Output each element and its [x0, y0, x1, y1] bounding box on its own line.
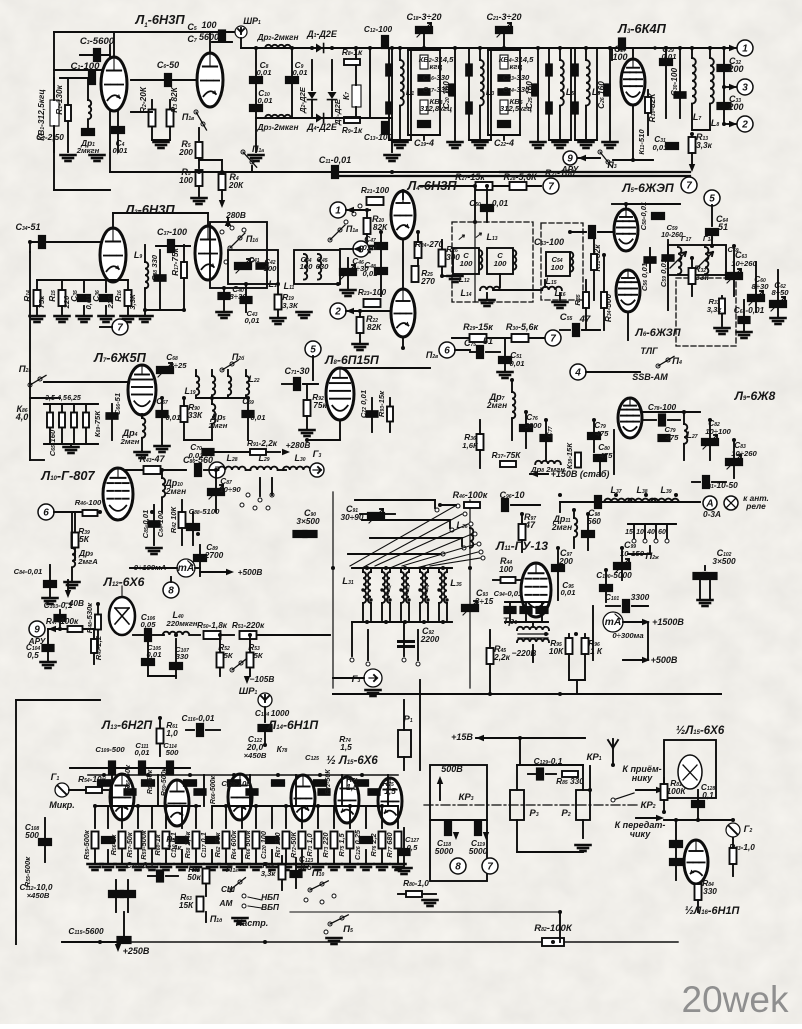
- svg-text:C23-330: C23-330: [503, 73, 530, 82]
- svg-text:100: 100: [460, 259, 474, 268]
- svg-text:R47-100к: R47-100к: [46, 616, 79, 626]
- svg-text:500: 500: [166, 748, 180, 757]
- svg-text:2,4к: 2,4к: [166, 843, 183, 852]
- svg-text:1 К: 1 К: [590, 646, 603, 656]
- svg-text:R60-1к: R60-1к: [153, 833, 162, 855]
- svg-text:R91-2,2к: R91-2,2к: [247, 438, 278, 448]
- svg-text:R30-5,6к: R30-5,6к: [506, 322, 539, 332]
- svg-text:0,05: 0,05: [141, 620, 157, 629]
- svg-text:C117-0,1: C117-0,1: [126, 860, 155, 870]
- svg-text:C115-5600: C115-5600: [68, 926, 104, 936]
- svg-text:C59 0,01: C59 0,01: [659, 259, 668, 287]
- svg-text:20wek: 20wek: [682, 979, 789, 1020]
- svg-text:5600: 5600: [199, 32, 219, 42]
- svg-text:R46-100: R46-100: [75, 498, 102, 507]
- svg-text:C61-0,01: C61-0,01: [734, 305, 765, 315]
- svg-text:R72-50К: R72-50К: [289, 831, 298, 858]
- svg-text:R66 500к: R66 500к: [243, 829, 252, 859]
- svg-text:100: 100: [179, 175, 193, 185]
- svg-text:R72-50К: R72-50К: [325, 769, 332, 795]
- svg-text:0,01: 0,01: [662, 52, 677, 61]
- svg-text:1,0: 1,0: [166, 728, 178, 738]
- svg-text:Л10-Г-807: Л10-Г-807: [40, 468, 95, 483]
- svg-text:0,01: 0,01: [510, 359, 525, 368]
- svg-text:R1-130к: R1-130к: [54, 84, 64, 114]
- svg-text:75к: 75к: [37, 295, 46, 309]
- svg-text:2700: 2700: [204, 550, 224, 560]
- svg-text:R93-15к: R93-15к: [377, 390, 386, 417]
- svg-text:−105В: −105В: [250, 674, 275, 684]
- svg-text:50к: 50к: [187, 872, 201, 882]
- svg-text:Л9-6Ж8: Л9-6Ж8: [734, 389, 776, 403]
- svg-text:10К: 10К: [549, 646, 564, 656]
- svg-text:4,5: 4,5: [56, 395, 67, 402]
- svg-text:475: 475: [599, 451, 614, 460]
- svg-text:R56 1к: R56 1к: [109, 833, 118, 855]
- svg-text:C21-3÷20: C21-3÷20: [486, 12, 521, 22]
- svg-text:R73 220: R73 220: [321, 831, 330, 857]
- svg-text:Л4-6Н3П: Л4-6Н3П: [406, 178, 457, 193]
- svg-text:R21-100: R21-100: [361, 185, 390, 195]
- svg-text:0,01: 0,01: [492, 198, 509, 208]
- svg-text:C109-500: C109-500: [95, 745, 125, 754]
- svg-text:R21-100: R21-100: [545, 168, 575, 178]
- svg-text:3÷15: 3÷15: [475, 596, 494, 606]
- svg-text:Д1-Д2Е: Д1-Д2Е: [306, 29, 338, 39]
- svg-text:C37-100: C37-100: [157, 227, 187, 237]
- svg-text:R29-15к: R29-15к: [463, 322, 493, 332]
- svg-text:15К: 15К: [179, 900, 194, 910]
- svg-text:10÷260: 10÷260: [731, 259, 757, 268]
- svg-text:C96-10: C96-10: [499, 490, 524, 500]
- svg-text:5: 5: [709, 194, 715, 205]
- svg-text:×450В: ×450В: [27, 891, 50, 900]
- svg-text:1: 1: [742, 44, 748, 55]
- svg-text:2мгн: 2мгн: [486, 400, 507, 410]
- svg-text:C53-100: C53-100: [534, 237, 564, 247]
- svg-text:R66-500к: R66-500к: [210, 775, 217, 804]
- svg-text:6: 6: [444, 346, 450, 357]
- svg-text:R37-75К: R37-75К: [492, 450, 522, 460]
- svg-text:Д4-Д2Е: Д4-Д2Е: [306, 122, 338, 132]
- svg-text:1: 1: [335, 206, 341, 217]
- svg-text:5600: 5600: [524, 421, 542, 430]
- svg-text:Л6-6ЖЗП: Л6-6ЖЗП: [634, 327, 681, 339]
- svg-text:500: 500: [25, 830, 39, 840]
- svg-text:C120-100: C120-100: [221, 779, 251, 788]
- svg-text:+1500В: +1500В: [652, 617, 684, 627]
- svg-text:7: 7: [487, 862, 493, 873]
- svg-text:R28-5,6К: R28-5,6К: [503, 172, 538, 182]
- svg-text:C34-51: C34-51: [15, 222, 40, 232]
- svg-text:100: 100: [551, 263, 565, 272]
- svg-text:3300: 3300: [631, 592, 650, 602]
- svg-text:C16-330: C16-330: [423, 73, 450, 82]
- svg-text:C3-5600: C3-5600: [80, 36, 115, 47]
- svg-text:R3 82К: R3 82К: [169, 86, 179, 112]
- svg-text:C100-5000: C100-5000: [596, 570, 632, 580]
- svg-text:2мгн: 2мгн: [551, 522, 572, 532]
- svg-text:8: 8: [168, 586, 174, 597]
- svg-text:5К: 5К: [79, 534, 90, 544]
- svg-text:R24-270: R24-270: [415, 239, 444, 249]
- svg-text:8: 8: [455, 862, 461, 873]
- svg-text:1,5: 1,5: [340, 742, 352, 752]
- svg-text:10-260: 10-260: [661, 232, 683, 239]
- svg-text:Микр.: Микр.: [49, 800, 75, 810]
- svg-text:8÷25: 8÷25: [169, 361, 187, 370]
- svg-text:К11-510: К11-510: [637, 129, 646, 155]
- svg-text:C94-0,01: C94-0,01: [494, 589, 523, 598]
- svg-text:C56 0,01: C56 0,01: [640, 263, 649, 291]
- svg-text:0,5: 0,5: [27, 650, 39, 660]
- svg-text:100К: 100К: [667, 786, 687, 796]
- svg-text:C71-30: C71-30: [284, 366, 309, 376]
- svg-text:R67 220: R67 220: [273, 831, 282, 857]
- svg-text:7: 7: [686, 181, 692, 192]
- svg-text:100: 100: [494, 259, 508, 268]
- svg-text:К38-15К: К38-15К: [565, 442, 574, 469]
- svg-text:+150В (стаб): +150В (стаб): [551, 469, 610, 479]
- svg-text:ТЛГ: ТЛГ: [640, 346, 658, 356]
- svg-text:0÷300ма: 0÷300ма: [612, 631, 644, 640]
- svg-text:Л13-6Н2П: Л13-6Н2П: [101, 718, 152, 732]
- svg-text:А: А: [705, 499, 713, 510]
- svg-text:3,3К: 3,3К: [282, 301, 299, 310]
- svg-text:ВБП: ВБП: [261, 902, 280, 912]
- svg-text:0,01: 0,01: [653, 143, 668, 152]
- svg-text:9: 9: [567, 154, 573, 165]
- svg-text:кгц: кгц: [510, 62, 523, 71]
- svg-text:7: 7: [548, 182, 554, 193]
- svg-text:0,01: 0,01: [245, 316, 260, 325]
- svg-text:C126 0,25: C126 0,25: [353, 829, 362, 860]
- svg-text:C84-100: C84-100: [156, 510, 165, 537]
- svg-text:1,0: 1,0: [346, 782, 358, 792]
- svg-text:C12-100: C12-100: [364, 24, 393, 34]
- svg-text:3,3К: 3,3К: [128, 293, 137, 310]
- svg-text:9: 9: [34, 625, 40, 636]
- svg-text:100: 100: [201, 20, 216, 30]
- svg-text:2: 2: [741, 120, 748, 131]
- svg-text:R42 10К: R42 10К: [169, 505, 178, 533]
- svg-text:R2-20К: R2-20К: [138, 86, 148, 113]
- svg-text:R43-47: R43-47: [139, 454, 165, 464]
- svg-text:C2-2,50: C2-2,50: [36, 132, 64, 142]
- svg-text:2мкгн: 2мкгн: [76, 146, 100, 155]
- svg-text:Л2-6Н3П: Л2-6Н3П: [124, 202, 175, 217]
- svg-text:+500В: +500В: [238, 567, 263, 577]
- svg-text:Л7-6Ж5П: Л7-6Ж5П: [93, 350, 147, 365]
- svg-text:C65-160: C65-160: [48, 429, 57, 456]
- svg-text:100: 100: [264, 264, 278, 273]
- svg-text:100: 100: [300, 262, 314, 271]
- svg-text:R80-1,0: R80-1,0: [403, 878, 429, 888]
- svg-text:60: 60: [658, 529, 666, 536]
- svg-text:R76 2,2: R76 2,2: [369, 832, 378, 856]
- svg-text:↗: ↗: [457, 232, 465, 242]
- svg-text:½Л15-6Х6: ½Л15-6Х6: [676, 725, 725, 737]
- svg-text:0,01: 0,01: [113, 146, 128, 155]
- svg-text:R51-220к: R51-220к: [232, 620, 265, 630]
- svg-text:200: 200: [727, 102, 743, 112]
- svg-text:0,01: 0,01: [293, 68, 308, 77]
- svg-text:100: 100: [499, 564, 513, 574]
- svg-text:R77 680: R77 680: [385, 831, 394, 857]
- svg-text:R8-1к: R8-1к: [342, 47, 363, 57]
- svg-text:R27-15к: R27-15к: [455, 172, 485, 182]
- svg-text:↗: ↗: [474, 230, 482, 240]
- svg-text:C117 0,1: C117 0,1: [199, 832, 208, 858]
- svg-text:R82-100К: R82-100К: [534, 923, 573, 934]
- svg-text:C103-0,1: C103-0,1: [44, 600, 73, 610]
- svg-text:Л1-6Н3П: Л1-6Н3П: [134, 12, 185, 29]
- svg-text:2мгн: 2мгн: [208, 421, 228, 430]
- svg-text:7: 7: [117, 323, 123, 334]
- svg-text:5000: 5000: [435, 846, 454, 856]
- svg-text:Л8-6П15П: Л8-6П15П: [324, 353, 379, 367]
- svg-text:8÷50: 8÷50: [771, 288, 789, 297]
- svg-text:500В: 500В: [441, 764, 463, 774]
- svg-text:10: 10: [636, 529, 644, 536]
- svg-text:0,01: 0,01: [251, 413, 266, 422]
- svg-text:+250В: +250В: [123, 946, 150, 956]
- svg-text:0,01: 0,01: [561, 588, 576, 597]
- svg-text:C120 100: C120 100: [259, 830, 268, 859]
- svg-text:R50-1,8к: R50-1,8к: [197, 620, 228, 630]
- svg-text:R64 600к: R64 600к: [229, 829, 238, 859]
- svg-text:+15В: +15В: [451, 732, 473, 742]
- svg-text:2: 2: [334, 307, 341, 318]
- svg-text:1000: 1000: [271, 708, 290, 718]
- svg-text:100: 100: [612, 52, 627, 62]
- svg-text:R58 2,4к: R58 2,4к: [183, 830, 192, 858]
- svg-text:330: 330: [703, 886, 717, 896]
- svg-text:5000: 5000: [469, 846, 488, 856]
- svg-text:2200: 2200: [420, 634, 440, 644]
- svg-text:Л12-6Х6: Л12-6Х6: [103, 575, 145, 589]
- svg-text:15: 15: [625, 529, 633, 536]
- svg-text:2мгА: 2мгА: [77, 557, 98, 566]
- svg-text:5: 5: [310, 345, 316, 356]
- svg-text:C18-3÷20: C18-3÷20: [406, 12, 441, 22]
- svg-text:2мгн: 2мгн: [165, 486, 186, 496]
- svg-text:8÷30: 8÷30: [751, 282, 769, 291]
- svg-text:SSB-АМ: SSB-АМ: [632, 372, 668, 382]
- svg-text:C116-0,01: C116-0,01: [182, 713, 215, 723]
- svg-text:C11-0,01: C11-0,01: [319, 155, 351, 165]
- svg-text:АМ: АМ: [219, 898, 234, 908]
- svg-text:C1-100: C1-100: [71, 61, 101, 72]
- svg-text:82К: 82К: [367, 322, 382, 332]
- svg-text:6,25: 6,25: [67, 395, 81, 402]
- svg-text:К89-75К: К89-75К: [93, 410, 102, 437]
- svg-text:2,2к: 2,2к: [493, 652, 511, 662]
- svg-text:чику: чику: [630, 829, 651, 839]
- svg-text:R23-100: R23-100: [358, 287, 387, 297]
- svg-text:330: 330: [176, 652, 190, 661]
- svg-text:560: 560: [587, 516, 601, 526]
- svg-text:0-3А: 0-3А: [703, 509, 721, 519]
- svg-text:40: 40: [646, 529, 655, 536]
- svg-text:+500В: +500В: [651, 655, 678, 665]
- svg-text:Д2-Д2Е: Д2-Д2Е: [298, 86, 307, 114]
- svg-text:R71 1,0: R71 1,0: [305, 832, 314, 856]
- svg-text:3,3к: 3,3к: [696, 140, 713, 150]
- svg-text:630: 630: [316, 262, 330, 271]
- svg-text:R57-50к: R57-50к: [125, 831, 134, 858]
- svg-text:6: 6: [43, 508, 49, 519]
- svg-text:R62 50к: R62 50к: [213, 831, 222, 857]
- svg-text:4: 4: [574, 368, 581, 379]
- svg-text:Л5-6ЖЭП: Л5-6ЖЭП: [621, 181, 674, 195]
- svg-text:C66-51: C66-51: [113, 393, 122, 415]
- svg-text:20К: 20К: [228, 180, 244, 190]
- svg-text:СШ: СШ: [221, 884, 236, 894]
- svg-text:R59-500к: R59-500к: [161, 767, 168, 796]
- svg-text:C58-0,01: C58-0,01: [639, 202, 648, 231]
- svg-text:10÷90: 10÷90: [219, 485, 241, 494]
- svg-text:½Л16-6Н1П: ½Л16-6Н1П: [685, 905, 741, 917]
- svg-text:3: 3: [742, 83, 748, 94]
- svg-text:C129-0,1: C129-0,1: [534, 756, 563, 766]
- svg-text:R46-100к: R46-100к: [453, 490, 488, 500]
- svg-text:C6-50: C6-50: [157, 60, 179, 70]
- svg-text:mA: mA: [605, 617, 621, 628]
- svg-text:R55-500к: R55-500к: [82, 829, 91, 860]
- svg-text:0,01: 0,01: [257, 68, 272, 77]
- svg-text:475: 475: [665, 433, 680, 442]
- svg-text:51: 51: [718, 222, 728, 232]
- svg-text:R59-500к: R59-500к: [139, 829, 148, 860]
- svg-text:33к: 33к: [695, 272, 709, 282]
- svg-text:0,01: 0,01: [166, 413, 181, 422]
- svg-text:0,01: 0,01: [363, 243, 378, 252]
- svg-text:Др2-2мкгн: Др2-2мкгн: [256, 32, 298, 42]
- svg-text:1,5: 1,5: [384, 786, 396, 796]
- svg-text:200: 200: [727, 64, 743, 74]
- svg-text:200: 200: [178, 147, 193, 157]
- svg-text:4,0: 4,0: [15, 412, 29, 422]
- svg-text:C84-0,01: C84-0,01: [14, 567, 43, 576]
- svg-text:3×500: 3×500: [712, 556, 736, 566]
- svg-text:0,01: 0,01: [363, 269, 378, 278]
- svg-text:475: 475: [595, 429, 610, 438]
- svg-text:2мгн: 2мгн: [120, 437, 140, 446]
- svg-text:33К: 33К: [188, 410, 203, 420]
- svg-text:3,5: 3,5: [45, 395, 55, 402]
- svg-text:R75 1,5: R75 1,5: [337, 832, 346, 856]
- svg-text:47: 47: [579, 314, 591, 325]
- svg-text:R9-1к: R9-1к: [342, 125, 363, 135]
- svg-text:C78-100: C78-100: [648, 402, 677, 412]
- svg-text:Л11-ГУ-13: Л11-ГУ-13: [495, 539, 548, 553]
- svg-text:3,3к: 3,3к: [261, 869, 277, 878]
- svg-text:3,3к: 3,3к: [707, 305, 723, 314]
- svg-text:Др3-2мкгн: Др3-2мкгн: [256, 122, 298, 132]
- svg-text:НБП: НБП: [261, 892, 280, 902]
- svg-text:51: 51: [483, 336, 493, 346]
- svg-text:кгц: кгц: [430, 62, 443, 71]
- svg-text:Л3-6К4П: Л3-6К4П: [617, 21, 667, 36]
- svg-text:10÷260: 10÷260: [731, 449, 757, 458]
- svg-text:1,6К: 1,6К: [462, 441, 479, 450]
- svg-text:0,1: 0,1: [702, 790, 714, 800]
- svg-text:Л14-6Н1П: Л14-6Н1П: [267, 718, 318, 732]
- svg-text:3×500: 3×500: [296, 516, 320, 526]
- svg-text:×450В: ×450В: [244, 751, 267, 760]
- svg-text:реле: реле: [745, 501, 766, 511]
- svg-text:220мкгн: 220мкгн: [165, 619, 198, 628]
- svg-text:нику: нику: [632, 773, 654, 783]
- svg-text:0,01: 0,01: [258, 96, 273, 105]
- svg-text:R48-530к: R48-530к: [85, 602, 94, 634]
- svg-text:0,01: 0,01: [135, 748, 150, 757]
- svg-text:7: 7: [550, 334, 556, 345]
- svg-text:270: 270: [420, 276, 435, 286]
- svg-text:R56-50к: R56-50к: [123, 764, 132, 791]
